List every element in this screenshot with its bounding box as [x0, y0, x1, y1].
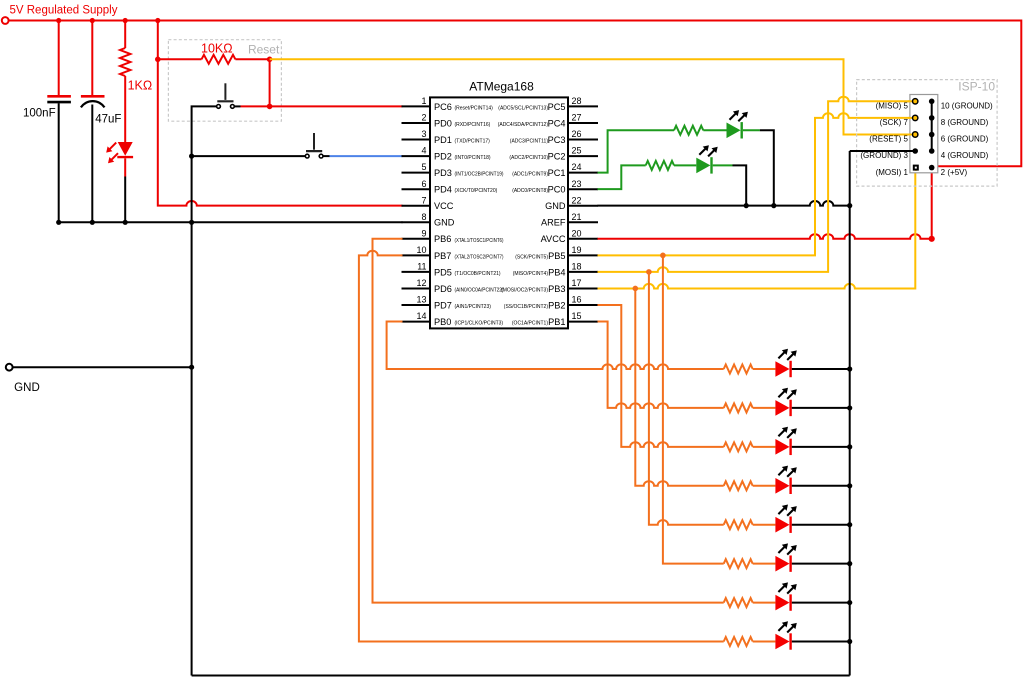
junction: [847, 483, 852, 488]
svg-text:PB3: PB3: [548, 284, 565, 294]
wire R7 to D6: [753, 446, 776, 448]
junction PB4: [646, 269, 652, 275]
pin 17 PB3: [501, 278, 598, 294]
wire PC0 (pin 23) to R4 (green): [598, 165, 646, 189]
svg-text:5V Regulated Supply: 5V Regulated Supply: [10, 5, 118, 17]
svg-text:6: 6: [422, 179, 427, 189]
ISP pin 1 MOSI (square pad): [876, 165, 919, 177]
wire PB5 row vertical to LED row 6: [663, 255, 724, 563]
svg-text:PB4: PB4: [548, 267, 565, 277]
svg-text:(ICP1/CLKO/PCINT3): (ICP1/CLKO/PCINT3): [455, 321, 504, 327]
LED D11 (red, row 8): [775, 621, 796, 649]
pin 2 PD0: [402, 113, 491, 129]
wire R1 to D1: [124, 76, 126, 142]
svg-text:PC5: PC5: [548, 102, 566, 112]
pin 14 PB0: [402, 311, 504, 327]
svg-text:(XTAL1/TOSC1/PCINT6): (XTAL1/TOSC1/PCINT6): [455, 238, 504, 244]
resistor R2 10KΩ: [202, 55, 236, 64]
svg-text:20: 20: [572, 228, 582, 238]
svg-text:ATMega168: ATMega168: [469, 79, 534, 93]
wire D11 cathode to GND bus: [792, 641, 850, 643]
junction GND vertical / S2: [189, 154, 194, 159]
wire GND bottom rail: [192, 675, 850, 677]
junction: [847, 405, 852, 410]
ISP pin 7 SCK: [880, 115, 918, 127]
svg-text:(OC1A/PCINT1): (OC1A/PCINT1): [512, 321, 548, 327]
pushbutton S2: [305, 133, 323, 158]
wire C2 to GND rail: [91, 105, 93, 223]
label ATMega168: [469, 79, 534, 93]
svg-text:(RESET) 5: (RESET) 5: [869, 135, 908, 144]
wire D4 cathode to GND bus: [792, 368, 850, 370]
wire GND (pin 22) to ISP ground: [598, 201, 850, 206]
svg-text:3: 3: [422, 129, 427, 139]
junction dots green LED grounds: [744, 203, 777, 208]
pin 18 PB4: [513, 262, 598, 278]
svg-text:VCC: VCC: [434, 201, 454, 211]
svg-text:ISP-10: ISP-10: [958, 80, 995, 94]
svg-text:PB6: PB6: [434, 234, 451, 244]
svg-text:28: 28: [572, 96, 582, 106]
wire R11 to D10: [753, 602, 776, 604]
svg-text:PD0: PD0: [434, 118, 452, 128]
svg-text:PC6: PC6: [434, 102, 452, 112]
reset group dashed box: [168, 40, 281, 122]
node +5V terminal: [2, 17, 9, 24]
wire PB7 (pin 10) to LED row 8: [359, 251, 724, 642]
wire PB4 row vertical to LED row 5: [649, 272, 724, 525]
svg-text:PB2: PB2: [548, 300, 565, 310]
svg-text:11: 11: [417, 262, 426, 272]
wire +5V top rail: [9, 21, 1022, 167]
svg-text:(AIN0/OC0A/PCINT22): (AIN0/OC0A/PCINT22): [455, 287, 504, 293]
svg-text:2 (+5V): 2 (+5V): [941, 168, 968, 177]
svg-text:PC0: PC0: [548, 185, 566, 195]
junction: [847, 561, 852, 566]
wire S1 to GND vertical: [192, 106, 217, 156]
junction: [847, 444, 852, 449]
value label 100nF: [23, 107, 56, 119]
svg-text:GND: GND: [545, 201, 566, 211]
pin 15 PB1: [512, 311, 598, 327]
svg-text:PC2: PC2: [548, 151, 566, 161]
resistor R1 1KΩ: [120, 48, 130, 76]
svg-text:(SCK) 7: (SCK) 7: [880, 118, 909, 127]
LED D8 (red, row 5): [775, 505, 796, 533]
pin 7 VCC: [402, 195, 454, 211]
junction: [847, 600, 852, 605]
wire S1 to PC6 (pin 1): [235, 105, 403, 107]
svg-text:(ADC4/SDA/PCINT12): (ADC4/SDA/PCINT12): [498, 122, 549, 128]
svg-text:(ADC1/PCINT9): (ADC1/PCINT9): [512, 172, 548, 178]
svg-text:8: 8: [422, 212, 427, 222]
svg-text:GND: GND: [434, 218, 455, 228]
svg-text:16: 16: [572, 295, 582, 305]
label ISP-10: [958, 80, 995, 94]
ISP pin 6 GROUND: [929, 132, 989, 144]
svg-text:4: 4: [422, 146, 427, 156]
svg-text:4 (GROUND): 4 (GROUND): [941, 151, 989, 160]
wire PB0 (pin 14) to LED row 1: [387, 322, 724, 369]
wire D9 cathode to GND bus: [792, 563, 850, 565]
svg-text:47uF: 47uF: [95, 114, 121, 126]
wire R12 to D11: [753, 641, 776, 643]
ISP pin 8 GROUND: [929, 115, 989, 127]
wire R9 to D8: [753, 524, 776, 526]
pin 25 PC2: [509, 146, 598, 162]
junction GND rail: [189, 220, 194, 225]
svg-text:(INT1/OC2B/PCINT19): (INT1/OC2B/PCINT19): [455, 172, 504, 178]
svg-text:26: 26: [572, 129, 582, 139]
svg-text:23: 23: [572, 179, 582, 189]
pin 24 PC1: [512, 162, 598, 178]
svg-text:(MISO/PCINT4): (MISO/PCINT4): [513, 271, 549, 277]
pushbutton S1 (reset): [217, 83, 235, 108]
pin 1 PC6: [402, 96, 494, 112]
pin 4 PD2: [402, 146, 491, 162]
wire R8 to D7: [753, 485, 776, 487]
junction: [847, 639, 852, 644]
svg-text:PD7: PD7: [434, 300, 452, 310]
wire R6 to D5: [753, 407, 776, 409]
wire D8 cathode to GND bus: [792, 524, 850, 526]
svg-text:PC4: PC4: [548, 118, 566, 128]
wire C1 to GND rail: [58, 103, 60, 222]
svg-text:1: 1: [422, 96, 427, 106]
wire D5 cathode to GND bus: [792, 407, 850, 409]
wire PB5/SCK (pin 19) to ISP SCK (yellow): [598, 113, 916, 255]
svg-text:Reset: Reset: [248, 43, 280, 57]
wire reset node to ISP RESET (yellow): [270, 59, 916, 134]
svg-text:(RXD/PCINT16): (RXD/PCINT16): [455, 122, 491, 128]
net label GND: [14, 382, 40, 394]
resistor R4 (green): [646, 161, 674, 170]
pin 19 PB5: [515, 245, 598, 261]
svg-text:15: 15: [572, 311, 582, 321]
svg-text:AREF: AREF: [541, 218, 566, 228]
junction AVCC/+5V: [929, 236, 935, 242]
svg-text:PD1: PD1: [434, 135, 452, 145]
svg-text:10 (GROUND): 10 (GROUND): [941, 102, 993, 111]
LED D2 (green): [727, 110, 760, 138]
wire +5V to R2: [158, 58, 202, 60]
junction on +5V vertical for R2: [155, 57, 161, 63]
svg-text:(XTAL2/TOSC2/PCINT7): (XTAL2/TOSC2/PCINT7): [455, 254, 504, 260]
svg-text:(SCK/PCINT5): (SCK/PCINT5): [515, 254, 548, 260]
svg-text:7: 7: [422, 195, 427, 205]
junction GND terminal wire: [189, 365, 194, 370]
svg-text:GND: GND: [14, 382, 40, 394]
IC U1 ATMega168: [430, 97, 568, 328]
LED D7 (red, row 4): [775, 466, 796, 494]
wire ISP GROUND3 to GND bus: [850, 151, 932, 676]
LED D3 (green): [696, 145, 732, 173]
svg-text:12: 12: [417, 278, 427, 288]
svg-text:(GROUND) 3: (GROUND) 3: [860, 151, 908, 160]
pin 21 AREF: [541, 212, 598, 228]
pin 26 PC3: [510, 129, 598, 145]
wire PB2 (pin 16) to LED row 3: [598, 305, 724, 447]
wire R4 to D3: [674, 164, 696, 166]
wire PB4/MISO (pin 18) to ISP MISO (yellow): [598, 97, 916, 272]
svg-text:2: 2: [422, 113, 427, 123]
pin 8 GND: [402, 212, 455, 228]
node reset junction: [267, 57, 273, 63]
svg-text:(SS/OC1B/PCINT2): (SS/OC1B/PCINT2): [504, 304, 549, 310]
wire D6 cathode to GND bus: [792, 446, 850, 448]
junction: [847, 522, 852, 527]
svg-text:25: 25: [572, 146, 582, 156]
connector body: [910, 95, 938, 173]
LED D9 (red, row 6): [775, 543, 796, 571]
wire GND rail to pin 8: [59, 221, 403, 223]
svg-text:(ADC3/PCINT11): (ADC3/PCINT11): [510, 139, 549, 145]
wire D3 cathode to GND: [733, 165, 747, 205]
wire S2 to PD2 (pin 4, blue): [330, 155, 403, 157]
wire R10 to D9: [753, 563, 776, 565]
wire D7 cathode to GND bus: [792, 485, 850, 487]
value label 10KΩ: [201, 42, 233, 56]
junction PB3: [633, 286, 639, 292]
pin 11 PD5: [402, 262, 501, 278]
resistor R9 (LED row 5): [724, 520, 753, 529]
wire tails into ISP pins: [908, 101, 916, 171]
svg-text:(XCK/T0/PCINT20): (XCK/T0/PCINT20): [455, 188, 498, 194]
wire ISP pin2 +5V down to AVCC line: [931, 168, 933, 239]
svg-text:PB5: PB5: [548, 251, 565, 261]
svg-text:21: 21: [572, 212, 582, 222]
svg-text:19: 19: [572, 245, 582, 255]
svg-text:PB7: PB7: [434, 251, 451, 261]
svg-text:1KΩ: 1KΩ: [128, 79, 153, 93]
pin 20 AVCC: [541, 228, 598, 244]
svg-text:17: 17: [572, 278, 582, 288]
svg-text:AVCC: AVCC: [541, 234, 566, 244]
wire +5V down to VCC (pin 7): [158, 21, 403, 206]
LED D4 (red, row 1): [775, 349, 796, 377]
junction dots on +5V rail: [56, 18, 160, 23]
junction: [847, 366, 852, 371]
capacitor C1 100nF: [47, 96, 71, 102]
junction on PC6 line: [267, 104, 273, 110]
node GND terminal: [6, 364, 13, 371]
pin 10 PB7: [402, 245, 504, 261]
pin 27 PC4: [498, 113, 598, 129]
value label 1KΩ: [128, 79, 153, 93]
wire R5 to D4: [753, 368, 776, 370]
ISP ground bus (pins 10-8-6-4): [931, 101, 933, 151]
junction GND bus / pin22 line: [847, 203, 852, 208]
pin 3 PD1: [402, 129, 491, 145]
svg-text:10: 10: [417, 245, 427, 255]
resistor R5 (LED row 1): [724, 365, 753, 374]
ISP pin 2 +5V: [929, 165, 968, 177]
connector J1 ISP-10 dashed outline: [857, 80, 998, 187]
LED D5 (red, row 2): [775, 388, 796, 416]
net label 5V Regulated Supply: [10, 5, 118, 17]
resistor R10 (LED row 6): [724, 559, 753, 568]
value label 47uF: [95, 114, 121, 126]
svg-text:(T1/OC0B/PCINT21): (T1/OC0B/PCINT21): [455, 271, 501, 277]
svg-text:PB0: PB0: [434, 317, 451, 327]
svg-text:13: 13: [417, 295, 427, 305]
wire PB6 (pin 9) to LED row 7: [373, 239, 724, 603]
svg-text:(INT0/PCINT18): (INT0/PCINT18): [455, 155, 491, 161]
wire D1 cathode to GND rail: [124, 177, 126, 223]
junction PB5: [660, 253, 666, 259]
LED D1 power indicator (red, pointing down): [106, 142, 133, 177]
pin 23 PC0: [512, 179, 598, 195]
svg-text:PD4: PD4: [434, 185, 452, 195]
wire +5V to C1: [58, 21, 60, 97]
svg-text:(ADC2/PCINT10): (ADC2/PCINT10): [509, 155, 548, 161]
wire R2 to reset node: [235, 58, 269, 60]
pin 9 PB6: [402, 228, 504, 244]
resistor R7 (LED row 3): [724, 442, 753, 451]
wire D10 cathode to GND bus: [792, 602, 850, 604]
svg-text:(MOSI) 1: (MOSI) 1: [876, 168, 909, 177]
wire +5V to C2: [91, 21, 93, 97]
wire S2 stub: [323, 155, 329, 157]
svg-text:(ADC0/PCINT8): (ADC0/PCINT8): [512, 188, 548, 194]
resistor R6 (LED row 2): [724, 403, 753, 412]
wire PC1 (pin 24) to R3 (green): [598, 130, 675, 172]
pin 22 GND: [545, 195, 598, 211]
label Reset: [248, 43, 280, 57]
svg-text:8 (GROUND): 8 (GROUND): [941, 118, 989, 127]
wire D2 cathode to GND: [760, 130, 774, 205]
svg-text:(TXD/PCINT17): (TXD/PCINT17): [455, 139, 491, 145]
svg-text:PD5: PD5: [434, 267, 452, 277]
resistor R12 (LED row 8): [724, 637, 753, 646]
resistor R8 (LED row 4): [724, 481, 753, 490]
svg-text:PD3: PD3: [434, 168, 452, 178]
resistor R3 (green): [674, 126, 703, 135]
svg-text:100nF: 100nF: [23, 107, 56, 119]
wire GND vertical (button bus down): [191, 156, 193, 675]
LED D10 (red, row 7): [775, 582, 796, 610]
svg-text:PC3: PC3: [548, 135, 566, 145]
ISP pin 4 GROUND: [929, 148, 989, 160]
ISP pin 5 MISO: [876, 99, 918, 111]
svg-text:(Reset/PCINT14): (Reset/PCINT14): [455, 105, 494, 111]
svg-text:6 (GROUND): 6 (GROUND): [941, 135, 989, 144]
svg-text:9: 9: [422, 228, 427, 238]
ISP pin 10 GROUND: [929, 99, 993, 111]
wire PB3/MOSI (pin 17) to ISP MOSI (yellow): [598, 171, 916, 289]
svg-text:10KΩ: 10KΩ: [201, 42, 233, 56]
wire GND terminal to vertical: [13, 366, 192, 368]
wire PB1 (pin 15) to LED row 2: [598, 322, 724, 408]
svg-text:18: 18: [572, 262, 582, 272]
wire reset node down to PC6 line: [269, 59, 271, 106]
svg-text:PB1: PB1: [548, 317, 565, 327]
svg-text:27: 27: [572, 113, 582, 123]
svg-text:22: 22: [572, 195, 582, 205]
svg-text:PD6: PD6: [434, 284, 452, 294]
pin 13 PD7: [402, 295, 492, 311]
svg-text:(MISO) 5: (MISO) 5: [876, 102, 909, 111]
pin 12 PD6: [402, 278, 504, 294]
ISP pin 5 RESET: [869, 132, 918, 144]
wire R3 to D2: [703, 129, 726, 131]
pin 6 PD4: [402, 179, 498, 195]
wire AVCC (pin 20) to +5V: [598, 234, 932, 239]
pin 28 PC5: [498, 96, 598, 112]
svg-text:(MOSI/OC2/PCINT3): (MOSI/OC2/PCINT3): [501, 287, 548, 293]
pin 5 PD3: [402, 162, 504, 178]
wire +5V to R1: [124, 21, 126, 49]
LED D6 (red, row 3): [775, 427, 796, 455]
wire S2 to GND vertical: [192, 155, 305, 157]
ISP pin 3 GROUND: [860, 148, 918, 160]
capacitor C2 47uF (polarized): [81, 96, 105, 107]
wire PB3 row vertical to LED row 4: [635, 288, 723, 485]
pin 16 PB2: [504, 295, 598, 311]
svg-text:PC1: PC1: [548, 168, 566, 178]
resistor R11 (LED row 7): [724, 598, 753, 607]
svg-text:(AIN1/PCINT23): (AIN1/PCINT23): [455, 304, 492, 310]
svg-text:PD2: PD2: [434, 151, 452, 161]
svg-text:24: 24: [572, 162, 582, 172]
svg-text:14: 14: [417, 311, 427, 321]
svg-text:(ADC5/SCL/PCINT13): (ADC5/SCL/PCINT13): [498, 105, 548, 111]
svg-text:5: 5: [422, 162, 427, 172]
junction dots on GND rail: [56, 220, 128, 225]
